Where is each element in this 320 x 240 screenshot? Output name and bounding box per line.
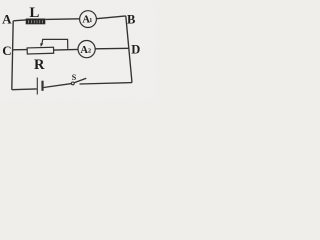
ammeter A1 [80,11,97,28]
bottom wire left corner to battery [12,88,37,91]
wire switch to bottom-right corner [80,83,133,84]
wire L to ammeter A1 [45,18,79,21]
svg-text:S: S [72,73,77,82]
inductor coil L (dark box) [26,19,46,25]
wire battery to switch pivot [44,84,72,88]
svg-text:B: B [127,13,135,27]
svg-text:D: D [131,42,140,56]
wire top-left corner to L [13,19,26,22]
right rail wire B to bottom-right corner [126,16,132,83]
switch lever [74,78,86,83]
svg-text:C: C [2,43,11,58]
rheostat R body [27,47,54,54]
ammeter A2 [78,41,95,58]
svg-text:R: R [34,57,45,73]
rheostat wiper arrow and loop wire [40,39,68,49]
svg-text:L: L [29,5,39,21]
svg-text:1: 1 [89,17,92,24]
wire A2 to node D on right rail [95,47,129,50]
wire A1 to corner B [96,16,125,19]
wire R to ammeter A2 [54,48,78,51]
battery cell: long positive plate [36,78,38,95]
svg-text:A: A [2,12,12,27]
wire C to rheostat R [12,49,27,51]
left rail wire A to bottom-left corner [12,21,13,90]
battery cell: short negative plate [41,81,43,91]
svg-text:2: 2 [88,48,91,55]
switch S pivot [71,82,74,85]
